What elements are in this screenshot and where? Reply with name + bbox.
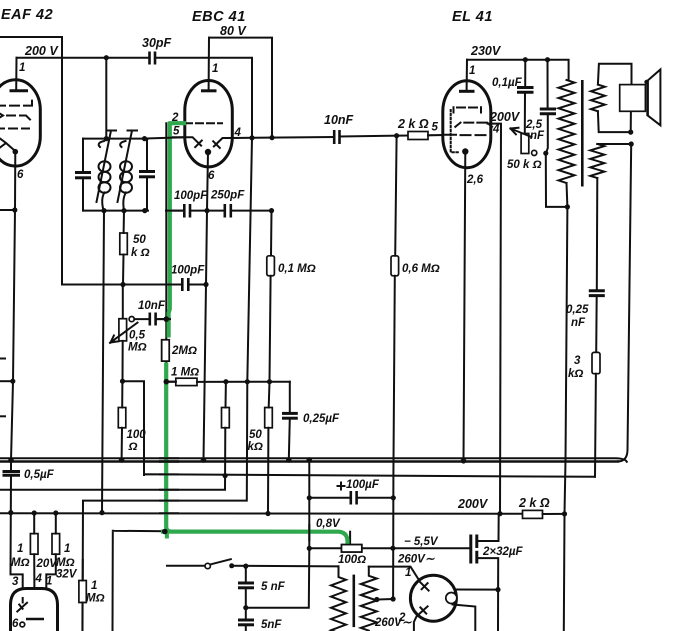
- node dot bus pin6EAF: [8, 458, 14, 464]
- capacitor 2.5nF plates: [540, 108, 556, 111]
- wire 80V line down through 0.1M: [270, 211, 273, 256]
- wire stub left at y381: [0, 380, 13, 382]
- wire pot wiper to 10nF: [134, 318, 150, 320]
- svg-text:5 nF: 5 nF: [261, 581, 286, 593]
- svg-text:260V∼: 260V∼: [374, 617, 412, 629]
- svg-text:20V: 20V: [36, 558, 59, 570]
- node dot 100uF left: [307, 495, 312, 500]
- capacitor 100pF AVC plates: [181, 278, 184, 291]
- svg-text:6: 6: [12, 618, 19, 630]
- node dot grid/10nF: [164, 316, 170, 322]
- svg-text:30pF: 30pF: [142, 36, 172, 50]
- node dot pin6 det: [204, 208, 209, 213]
- wire speaker return down to bus corner: [618, 144, 631, 461]
- node dot bias line bottom: [391, 596, 396, 601]
- svg-text:0,6 MΩ: 0,6 MΩ: [402, 263, 440, 275]
- bus redraw over green: [160, 457, 178, 459]
- wire 0.1uF to pot 50k: [524, 92, 526, 133]
- wire 1M rail to 50k: [268, 382, 271, 408]
- wire 50k to AVC rail: [122, 255, 125, 285]
- node dot 2.5nF top: [545, 57, 550, 62]
- wire 100pF det left over green: [166, 210, 184, 212]
- wire stub left edge y358: [0, 358, 5, 360]
- node dot 0.1uF top: [523, 57, 528, 62]
- wire secondary bottom top lead: [597, 143, 631, 145]
- wire 10nF to grid green node: [156, 318, 168, 320]
- rectifier AZ41 envelope: [410, 575, 456, 621]
- node dot 0.6M line -5.5V: [390, 546, 395, 551]
- node dot 1M/R junction: [223, 379, 228, 384]
- node dot bias rail 1M right: [53, 510, 58, 515]
- node dot HV center tap: [374, 597, 379, 602]
- svg-text:0,1 MΩ: 0,1 MΩ: [278, 263, 316, 275]
- wire top-left horizontal (screen feed): [0, 37, 62, 285]
- wire IF left cap leads: [82, 139, 84, 173]
- node dot wiper junction: [543, 151, 548, 156]
- capacitor 100uF plates: [349, 491, 352, 505]
- wire 2x32uF lower right to HT: [477, 558, 499, 631]
- wire IF right cap leads: [146, 139, 148, 172]
- node dot 50kIF bottom: [120, 282, 125, 287]
- power transformer HV winding: [361, 567, 377, 631]
- grid dashes EAF42 row3: [0, 128, 29, 130]
- wire 3k down to feedback line: [594, 374, 597, 477]
- node dot IF bottom a: [101, 208, 106, 213]
- svg-text:2×32µF: 2×32µF: [482, 546, 524, 558]
- wire bus thin upper: [0, 458, 627, 462]
- output transformer secondary bottom: [590, 144, 604, 178]
- control grid EL41 dashes: [444, 134, 486, 136]
- svg-text:4: 4: [35, 573, 43, 585]
- grid dashes EAF42 row2: [0, 113, 30, 120]
- green overshoot tail: [165, 532, 169, 539]
- svg-text:nF: nF: [571, 317, 586, 329]
- wire pot top to AVC rail: [122, 285, 124, 319]
- node dot speaker return a: [628, 130, 633, 135]
- wire 200V anode rail EAF42 to 30pF and EBC41: [17, 57, 150, 59]
- wire 0.25nF to 3k: [595, 296, 598, 353]
- potentiometer 50k wiper circle: [532, 150, 537, 155]
- wire 50k to 200V rail: [267, 428, 269, 514]
- svg-text:5: 5: [173, 126, 180, 138]
- over-green black redraws: [146, 137, 362, 552]
- wire 5nF2 bottom: [245, 625, 247, 631]
- svg-text:3: 3: [12, 576, 19, 588]
- staircase y501 over green: [160, 500, 178, 502]
- wire 5nF1 top lead: [245, 566, 247, 582]
- switch lever assembly: [167, 565, 204, 567]
- wire 1M right top lead: [55, 513, 57, 534]
- node dot pin4 30pF junction: [249, 135, 254, 140]
- node dot pin6/AVC: [12, 207, 17, 212]
- inductor IF coil 1: [99, 141, 111, 211]
- rectifier anode 1 electrode: [419, 581, 429, 591]
- capacitor 30pF plates: [148, 52, 151, 65]
- wire 100ohm cathode link vertical: [349, 532, 351, 545]
- wire 100pF det row: [168, 210, 184, 212]
- grid dashes EAF42 row1: [0, 101, 32, 106]
- svg-text:k Ω: k Ω: [131, 247, 150, 259]
- wire pin5 diode lead: [172, 137, 202, 147]
- wire pot bottom to AF node: [123, 341, 145, 475]
- svg-text:kΩ: kΩ: [248, 441, 263, 453]
- svg-text:2 k Ω: 2 k Ω: [397, 117, 429, 131]
- wire IF feed down: [105, 58, 107, 139]
- tube EAF42 envelope: [0, 80, 40, 166]
- wire secondary bottom to 0.25nF: [596, 178, 599, 290]
- svg-text:260V∼: 260V∼: [397, 554, 435, 566]
- output transformer core: [581, 80, 584, 187]
- wire tap to bias line: [377, 598, 393, 601]
- svg-text:6: 6: [17, 169, 24, 181]
- wire 100uF right lead: [357, 497, 394, 499]
- resistor 0.1M box: [267, 256, 275, 276]
- node dot -5.5V 100ohm left: [307, 546, 312, 551]
- node dot IF bottom b: [121, 208, 126, 213]
- wire 0.25uF branch down: [289, 382, 291, 413]
- svg-text:0,25µF: 0,25µF: [303, 413, 340, 425]
- svg-text:1: 1: [212, 63, 218, 75]
- node dot speaker return b: [629, 141, 634, 146]
- svg-text:0,25: 0,25: [566, 304, 589, 316]
- rectifier anode 2 electrode: [418, 606, 428, 615]
- svg-text:1: 1: [91, 580, 97, 592]
- svg-text:6: 6: [208, 170, 215, 182]
- capacitor 100uF plus sign: [338, 483, 345, 490]
- heptode cathode bar: [26, 618, 44, 621]
- svg-text:100Ω: 100Ω: [338, 554, 366, 566]
- capacitor 0.5uF plates: [3, 470, 21, 473]
- cathode node dot EAF42: [13, 149, 19, 155]
- wire 230V rail: [467, 60, 569, 80]
- green highlighted signal path (vertical, offset beside wire): [166, 122, 347, 545]
- wire coil2 to 50k: [123, 211, 125, 233]
- tube EL41 envelope: [443, 81, 491, 168]
- node dot bus switch line: [307, 457, 313, 463]
- node dot bus pin6EBC: [201, 457, 207, 463]
- wire AF node to 100ohm: [121, 381, 123, 407]
- svg-text:2 k Ω: 2 k Ω: [518, 496, 550, 510]
- capacitor 250pF plates: [224, 204, 227, 218]
- svg-text:10nF: 10nF: [324, 113, 354, 127]
- node dot bus EL41 cathode: [461, 458, 467, 464]
- switch line over green at x309: [308, 525, 310, 540]
- wire rectifier heater lead down: [453, 605, 476, 631]
- wire pin5 EBC over green: [146, 137, 185, 138]
- node dot bus 0.25uF: [286, 457, 292, 463]
- wire secondary top bottom lead: [598, 111, 631, 132]
- power transformer core: [352, 575, 355, 628]
- wire feedback line (pot bottom to 3k bottom): [144, 474, 595, 477]
- node dot 1M/0.1M junction: [267, 379, 272, 384]
- wire 5nF mid to bias corner: [246, 548, 309, 607]
- potentiometer 50k box: [521, 134, 529, 154]
- node dot pot bottom: [120, 379, 125, 384]
- wire 30pF to EBC41 corner: [155, 58, 252, 138]
- node dot 2k/HT: [562, 511, 567, 516]
- svg-text:1: 1: [46, 576, 52, 588]
- node dot IF primary feed: [104, 55, 109, 60]
- wire 0.6M bottom lead down to bias line: [393, 276, 395, 599]
- potentiometer 50k arrow: [511, 128, 532, 137]
- wire 1M left top lead: [33, 513, 35, 534]
- green left tip at elbow: [161, 529, 170, 533]
- wire rectifier pin2 lead: [414, 616, 417, 631]
- wire 100ohm to bus: [121, 428, 123, 460]
- wire pin1 EL41 anode lead: [466, 60, 468, 90]
- svg-text:EBC 41: EBC 41: [192, 9, 246, 25]
- svg-text:100pF: 100pF: [171, 265, 205, 277]
- wire 200V rail full: [0, 512, 523, 515]
- node dot 200V/EL41 screen: [497, 511, 502, 516]
- IF transformer bottom rail: [83, 210, 148, 212]
- wire bus to -5.5V node vertical x309: [308, 460, 310, 548]
- capacitor 2x32uF right plates: [475, 535, 478, 549]
- resistor 1M osc right box: [52, 534, 60, 555]
- cathode dot EBC41: [205, 149, 211, 155]
- capacitor 0.25uF plates: [282, 412, 298, 415]
- wire pin4 screen to 200V rail: [488, 124, 502, 514]
- wire 100uF left lead: [309, 497, 351, 499]
- wire R x225 bottom lead crossing bus to staircase: [0, 428, 225, 490]
- svg-text:0,8V: 0,8V: [316, 518, 341, 530]
- svg-text:kΩ: kΩ: [568, 368, 583, 380]
- wire 10nF to 2k grid stopper: [340, 136, 409, 137]
- node dot IF top right: [142, 136, 147, 141]
- wire 2k to EL41: [428, 134, 444, 136]
- wire 0.6M top lead: [395, 136, 396, 256]
- svg-text:1: 1: [64, 543, 70, 555]
- node dot primary bottom junction: [565, 204, 570, 209]
- wire chassis bus thick: [0, 460, 618, 463]
- screen grid EL41 dashes: [455, 123, 492, 127]
- svg-text:1 MΩ: 1 MΩ: [171, 367, 199, 379]
- resistor AVC filter box (x225): [222, 408, 230, 428]
- node dot R x225 on feedback line: [223, 473, 228, 478]
- wire wiper junction down and right to primary bottom: [546, 153, 568, 207]
- wire 100ohm to 2x32uF: [362, 547, 470, 549]
- resistor 1M box horizontal: [176, 378, 197, 385]
- core arrow IF coil 1: [97, 131, 117, 203]
- inductor IF coil 2: [120, 141, 132, 211]
- wire 80V loop: [209, 38, 272, 138]
- wire pin1 EAF42 anode lead: [15, 58, 17, 90]
- speaker horn: [648, 70, 661, 126]
- node dot IF bottom c: [142, 208, 147, 213]
- svg-text:1: 1: [19, 62, 25, 74]
- cathode dot EL41: [462, 148, 468, 154]
- 200V rail over green: [160, 512, 178, 514]
- svg-text:3: 3: [574, 355, 581, 367]
- wire 1M left bottom lead to cathode: [33, 554, 35, 619]
- node dot 250pF/0.1M junction: [269, 208, 274, 213]
- node dot 0.6M tap: [394, 133, 399, 138]
- wire -5.5V node to 100ohm: [309, 547, 341, 549]
- svg-text:EL 41: EL 41: [452, 9, 493, 25]
- node dot 200V/IF line: [99, 510, 104, 515]
- capacitor 10nF coupling plates: [333, 130, 336, 144]
- wire AVC rail y284.5: [62, 284, 182, 286]
- wire 2k to rectifier vertical: [543, 513, 565, 515]
- svg-text:2: 2: [398, 612, 406, 624]
- output transformer primary winding: [559, 80, 575, 183]
- resistor 2k smoothing box: [523, 510, 543, 518]
- rectifier cathode bump: [446, 593, 457, 604]
- IF transformer top rail: [83, 138, 148, 140]
- node dot pin4 80V junction: [269, 135, 274, 140]
- wire 0.25uF to bus: [289, 418, 290, 460]
- wire secondary top lead to speaker: [598, 64, 632, 85]
- capacitor IF right plates: [139, 170, 155, 173]
- heater transformer winding left: [331, 566, 346, 631]
- svg-text:1: 1: [405, 567, 411, 579]
- svg-text:10nF: 10nF: [138, 300, 166, 312]
- resistor 1M osc left box: [30, 534, 38, 555]
- wire rectifier cathode to HT vertical: [455, 589, 498, 591]
- svg-text:50 k Ω: 50 k Ω: [507, 159, 542, 171]
- staircase y490 over green: [160, 489, 178, 491]
- wire AVC rail over green: [160, 284, 182, 286]
- svg-text:80 V: 80 V: [220, 24, 247, 38]
- node dot 1M/coupling junction: [245, 379, 250, 384]
- node dot 200V/50kAF: [265, 511, 270, 516]
- potentiometer 0.5M box: [119, 319, 127, 341]
- wire 0.1M to 1M rail: [270, 276, 271, 382]
- svg-text:MΩ: MΩ: [11, 557, 30, 569]
- svg-text:2MΩ: 2MΩ: [171, 345, 197, 357]
- wire pin4 diode lead: [213, 138, 233, 148]
- resistor 2M box (grid leak, on green path): [162, 340, 170, 361]
- node dot 5nF top: [243, 564, 248, 569]
- wire HV top to rectifier pin1: [369, 567, 418, 579]
- node dot AM/grid junction: [162, 529, 168, 535]
- wire coupling line from 30pF node down: [83, 138, 253, 631]
- node dot HT cathode: [495, 587, 500, 592]
- capacitor 2x32uF left plate: [469, 535, 472, 564]
- node dot bus 100ohm: [119, 457, 125, 463]
- resistor 2M redraw over green: [162, 340, 170, 361]
- capacitor 10nF volume plates: [149, 313, 152, 326]
- node dot speaker top corner: [644, 80, 648, 84]
- svg-text:4: 4: [492, 124, 500, 136]
- capacitor IF left plates: [75, 171, 91, 174]
- svg-text:MΩ: MΩ: [86, 593, 105, 605]
- wire 0.5uF below to junction: [11, 475, 23, 601]
- heptode pin3 electrode: [17, 598, 27, 612]
- wire pin6 EAF42 long left vertical down to heptode tube: [11, 152, 15, 471]
- node dot 200V/left vertical: [8, 510, 13, 515]
- node dot 100uF right on 0.6M line: [391, 495, 396, 500]
- svg-text:0,5: 0,5: [129, 330, 146, 342]
- node dot AVC left: [10, 379, 15, 384]
- svg-text:EAF 42: EAF 42: [1, 7, 53, 23]
- svg-text:50: 50: [133, 234, 146, 246]
- beam plate dotted link to cathode: [451, 110, 460, 152]
- svg-text:100µF: 100µF: [346, 479, 380, 491]
- wire EL41 cathode to bus: [464, 152, 466, 461]
- node dot bias rail 1M left: [32, 510, 37, 515]
- node dot IF top left: [104, 136, 109, 141]
- potentiometer 0.5M wiper circle: [129, 317, 134, 322]
- svg-text:100: 100: [127, 429, 147, 441]
- node dot pin6 AVC: [203, 282, 208, 287]
- feedback line over green: [160, 473, 178, 475]
- resistor 2k grid box: [408, 132, 428, 140]
- resistor 100 ohm IF box: [118, 408, 126, 428]
- wire speaker box bottom lead: [630, 112, 632, 133]
- wire 10nF node over green: [156, 318, 170, 320]
- capacitor 0.25nF plates: [589, 289, 605, 292]
- wire pin6 EBC41 down to chassis bus: [204, 152, 209, 460]
- svg-text:1: 1: [17, 543, 23, 555]
- wire 2.5nF top lead: [547, 60, 549, 108]
- resistor 100ohm cathode box: [342, 545, 362, 552]
- output transformer secondary top: [591, 85, 605, 112]
- potentiometer 0.5M arrow: [110, 323, 138, 343]
- wire 250pF to 80V line: [231, 210, 272, 212]
- wire 1M rail: [168, 381, 290, 383]
- wire 2.5nF to wiper node: [546, 114, 548, 153]
- wire long vertical from IF bottom to 200V rail: [102, 211, 104, 513]
- svg-text:MΩ: MΩ: [128, 342, 147, 354]
- svg-text:− 5,5V: − 5,5V: [404, 536, 439, 548]
- wire 2x32uF upper right to 200V: [477, 514, 499, 541]
- wire pin2 grid lead with dashes: [172, 122, 222, 124]
- wire 1M AM leads: [82, 560, 84, 581]
- heptode heater circle: [20, 622, 25, 627]
- anode bar EBC41: [201, 89, 217, 92]
- wire pin1 EBC41 anode lead: [208, 38, 210, 90]
- wire switch to heater winding: [232, 565, 339, 568]
- wire stub left edge y416: [0, 415, 5, 417]
- wire primary bottom lead: [564, 183, 568, 631]
- wire R x225 top lead: [225, 382, 227, 408]
- tube EBC41 envelope: [185, 81, 233, 167]
- resistor 50k IF: [120, 233, 128, 255]
- svg-text:200 V: 200 V: [24, 44, 59, 58]
- svg-text:250pF: 250pF: [210, 190, 245, 202]
- wire 5nF1 to 5nF2: [245, 588, 247, 619]
- resistor 3k box: [592, 352, 600, 373]
- wire grid line (under/beside green): [166, 123, 347, 545]
- svg-text:230V: 230V: [470, 44, 502, 58]
- anode bar EAF42: [10, 89, 29, 92]
- resistor 100ohm box redraw: [342, 545, 362, 552]
- wire 100pF to pin6 line: [190, 210, 225, 212]
- wire 0.1uF top lead: [524, 60, 526, 87]
- svg-text:Ω: Ω: [128, 441, 138, 453]
- svg-text:0,5µF: 0,5µF: [24, 469, 55, 481]
- node dot grid/1M: [164, 379, 170, 385]
- svg-text:5nF: 5nF: [261, 619, 282, 631]
- svg-text:nF: nF: [530, 130, 545, 142]
- svg-text:1: 1: [469, 65, 475, 77]
- capacitor 5nF1 plates: [238, 582, 254, 585]
- svg-text:200V: 200V: [489, 110, 521, 124]
- svg-text:MΩ: MΩ: [56, 557, 75, 569]
- resistor 1M AM box: [79, 581, 86, 603]
- wire 100pF AVC to pin6 line: [188, 284, 206, 286]
- capacitor 0.1uF plates: [517, 86, 534, 89]
- svg-text:100pF: 100pF: [174, 190, 208, 202]
- anode bar EL41: [459, 90, 475, 93]
- resistor 0.6M box: [391, 256, 399, 276]
- wire 1M right bottom lead to pin1: [46, 554, 56, 631]
- speaker membrane bar: [646, 81, 649, 116]
- wire 1M left over green: [166, 381, 176, 383]
- svg-text:32V: 32V: [56, 569, 78, 581]
- beam plates EL41 dashes: [454, 107, 482, 112]
